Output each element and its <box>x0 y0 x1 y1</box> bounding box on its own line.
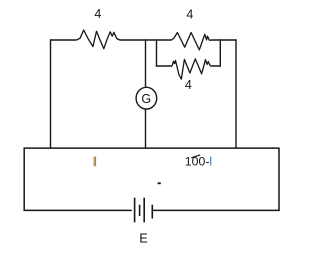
svg-text:4: 4 <box>94 7 101 21</box>
resistor R2 (top-right zigzag), value 4 <box>171 33 209 50</box>
resistor R3 (lower parallel zigzag), value 4 <box>172 59 210 79</box>
wire bottom-resistor right lead <box>210 65 221 67</box>
bottom wire left of battery <box>24 209 132 211</box>
box left edge <box>23 148 25 211</box>
wire parallel-loop right vertical <box>219 39 221 66</box>
wire top horizontal segment (R2 to right corner) <box>209 39 236 41</box>
bottom wire right of battery <box>152 209 279 211</box>
bridge wire (top edge of box) <box>24 147 280 149</box>
battery E : long plate 2 <box>143 198 145 223</box>
wire bottom-resistor left lead <box>156 65 172 67</box>
galvanometer G <box>136 87 157 109</box>
wire top horizontal segment (R1 to R2) <box>117 39 171 40</box>
svg-text:G: G <box>141 92 151 106</box>
box right edge <box>278 148 280 211</box>
wire galvanometer bottom <box>145 109 147 149</box>
wire parallel-loop left vertical <box>156 39 158 66</box>
wire galvanometer top <box>145 39 147 87</box>
battery E : short plate 2 <box>151 205 153 219</box>
wire top horizontal segment (left vertical to R1) <box>50 39 76 41</box>
stray accent mark above 100-l zeros <box>191 155 200 158</box>
svg-text:100-l: 100-l <box>185 154 212 168</box>
stray dash node mark near center <box>158 182 161 184</box>
resistor R1 (top-left zigzag), value 4 <box>76 30 116 49</box>
svg-text:E: E <box>139 230 148 245</box>
battery E : short plate 1 <box>139 205 141 216</box>
wire right vertical <box>235 39 237 148</box>
wire left vertical <box>50 39 52 148</box>
svg-text:4: 4 <box>185 78 192 92</box>
battery E : long plate 1 <box>134 198 136 223</box>
svg-text:4: 4 <box>186 8 193 22</box>
label l (left bridge segment, cleartype orange/blue) <box>94 157 97 167</box>
